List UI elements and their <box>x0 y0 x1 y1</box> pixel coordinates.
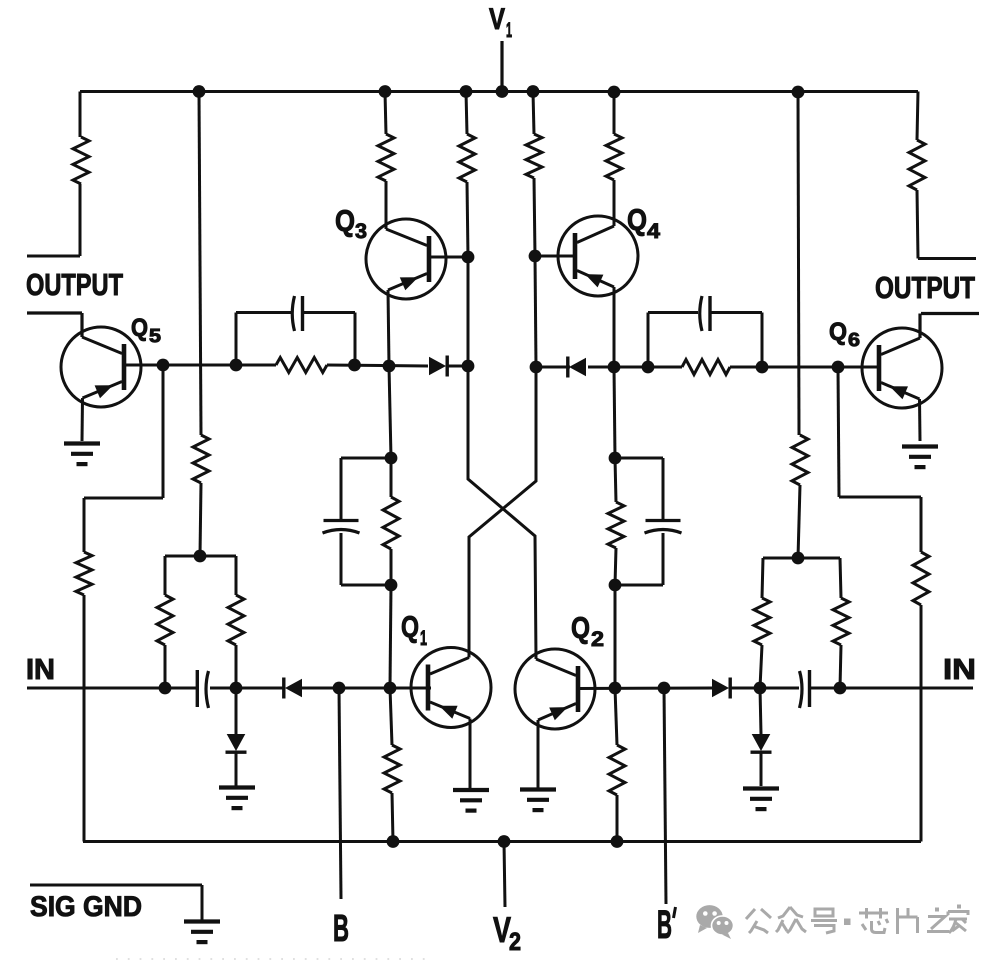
wire Q4 base lead <box>535 255 575 258</box>
node Q3 label <box>335 205 367 243</box>
diode D2 <box>568 357 586 378</box>
wire D6 branch <box>760 688 761 734</box>
svg-text:IN: IN <box>26 654 55 686</box>
resistor R11 <box>606 134 622 180</box>
watermark glyph xin <box>859 908 888 933</box>
node junction bias bar left <box>194 550 207 563</box>
ground D6 <box>743 789 779 810</box>
node junction Q5 base <box>157 359 170 372</box>
wire R12 upper stub <box>615 458 616 502</box>
watermark glyph zhong <box>776 907 806 933</box>
capacitor C1 <box>292 296 302 331</box>
resistor R14 <box>792 435 808 485</box>
svg-text:Q: Q <box>571 612 590 645</box>
ground D5 <box>219 788 255 809</box>
node junction Q3 emitter row <box>383 360 396 373</box>
resistor R1 <box>73 137 89 184</box>
wire right divider B lower <box>840 645 841 688</box>
wire C6 segment <box>811 687 973 690</box>
node junction RC right end <box>348 359 361 372</box>
svg-text:IN: IN <box>943 654 976 686</box>
wire Q5 base lead <box>124 364 163 367</box>
node Q1 label <box>401 611 427 650</box>
wire output stub upper left <box>27 255 80 258</box>
node V1 label <box>489 3 512 42</box>
transistor Q5 <box>61 327 141 407</box>
diode D3 <box>284 678 302 699</box>
resistor R9 <box>384 745 400 793</box>
svg-text:Q: Q <box>829 318 847 346</box>
wire B' lead <box>664 688 666 904</box>
wire D5 to ground <box>235 753 238 786</box>
wire Q5 base row <box>163 364 276 367</box>
resistor R7 <box>459 134 475 182</box>
wire R9 to bottom rail <box>392 793 393 842</box>
svg-text:5: 5 <box>149 326 161 347</box>
wire C4 bracket right lower <box>662 533 665 585</box>
resistor R3 <box>157 595 173 645</box>
wire Q5 emitter lead <box>81 398 85 441</box>
node junction top rail x199 <box>193 85 206 98</box>
svg-text:OUTPUT: OUTPUT <box>875 271 975 305</box>
wire Q3 collector lower <box>385 181 388 229</box>
wire R12 lower stub <box>615 548 616 585</box>
watermark glyph jia <box>948 905 968 934</box>
wire D4 segment <box>730 687 799 690</box>
wire bias line left upper <box>199 92 201 436</box>
wire Q3 emitter down <box>389 366 391 458</box>
svg-text:4: 4 <box>647 220 660 243</box>
wire Q6 base node down <box>838 367 839 497</box>
wire cap C1 bracket <box>236 313 355 366</box>
wire bottom rail <box>83 840 921 843</box>
transistor Q2 <box>515 649 595 729</box>
wire left divider B upper <box>235 556 238 595</box>
wire Q4 collector upper <box>613 92 616 135</box>
node junction IN x840 <box>834 682 847 695</box>
transistor Q1 <box>411 648 491 728</box>
wire line A cross <box>468 366 536 659</box>
node junction IN x236 <box>230 682 243 695</box>
wire output stub upper right <box>918 257 976 260</box>
node IN label right <box>943 654 976 686</box>
ground Q1 emitter <box>453 790 489 811</box>
capacitor C5 <box>197 670 208 708</box>
resistor R17 <box>909 140 925 190</box>
diode D6 <box>751 734 772 752</box>
node junction top rail x385 <box>379 85 392 98</box>
wire left lower column upper <box>83 498 86 552</box>
wire V2 lead <box>504 842 505 908</box>
resistor R6 <box>378 134 394 181</box>
transistor Q3 <box>366 219 446 299</box>
node V2 label <box>493 909 521 956</box>
wire IN left segment <box>27 687 197 690</box>
svg-text:Q: Q <box>131 314 148 342</box>
resistor R16 <box>833 598 849 645</box>
capacitor C3 <box>323 521 360 534</box>
svg-text:1: 1 <box>506 19 512 42</box>
node junction top rail x614 <box>608 86 621 99</box>
svg-text:3: 3 <box>355 220 367 243</box>
node SIG GND label <box>30 891 142 923</box>
node junction bottom rail x617 <box>611 835 624 848</box>
svg-text:1: 1 <box>420 627 427 650</box>
wire left divider B lower <box>235 645 238 688</box>
wire R8 upper stub <box>390 458 393 497</box>
node junction RC2 right end <box>756 361 769 374</box>
node junction C3 bottom <box>385 579 398 592</box>
wire C4 bracket top <box>615 457 663 460</box>
wire left divider A lower <box>164 645 167 688</box>
wire bias bar left <box>165 555 236 558</box>
svg-text:Q: Q <box>627 204 647 237</box>
svg-text:Q: Q <box>401 611 419 644</box>
transistor Q6 <box>862 328 942 408</box>
wire V1 lead <box>500 41 503 92</box>
node junction Q4 base / line B <box>529 250 542 263</box>
watermark glyph middot <box>844 919 851 926</box>
wire bias line right lower <box>798 485 800 558</box>
wire C3 bracket bottom <box>341 584 391 587</box>
svg-text:6: 6 <box>848 330 860 351</box>
node junction row-right / line A <box>530 361 543 374</box>
wire C3 bracket left upper <box>340 458 343 520</box>
node junction Q3 base / line A <box>462 251 475 264</box>
node junction top rail x533 <box>527 85 540 98</box>
node B' label <box>657 903 676 947</box>
wire D6 to ground <box>760 753 763 786</box>
wire C4 bracket bottom <box>615 584 663 587</box>
resistor R20 <box>682 360 730 375</box>
capacitor C6 <box>800 670 810 708</box>
wire D3 to Q1 base <box>302 687 431 690</box>
svg-text:B: B <box>333 908 349 950</box>
wire Q2 base to D4 <box>578 687 713 691</box>
ground SIG GND <box>184 922 220 943</box>
node junction IN x760 <box>754 682 767 695</box>
wire Q3 base lead <box>430 256 468 259</box>
wire R13 upper stub <box>615 688 617 745</box>
wire SIG GND bracket <box>30 885 202 921</box>
wire R9 upper stub <box>390 688 392 745</box>
node OUTPUT label right <box>875 271 975 305</box>
resistor R15 <box>754 598 770 645</box>
svg-text:B: B <box>657 903 672 947</box>
wire C5 to D3 <box>210 687 284 690</box>
node junction top rail V1 <box>496 85 509 98</box>
watermark glyph gong <box>746 909 771 933</box>
resistor R8 <box>383 497 399 549</box>
node junction C4 bottom <box>609 579 622 592</box>
wire right lower column to bottom rail <box>920 605 923 842</box>
wire Q5 base node down <box>162 365 165 498</box>
resistor R12 <box>608 502 624 548</box>
resistor R2 <box>193 435 209 483</box>
wire right divider A lower <box>760 645 762 688</box>
svg-text:OUTPUT: OUTPUT <box>26 268 123 302</box>
svg-text:2: 2 <box>509 928 521 956</box>
svg-text:SIG GND: SIG GND <box>30 891 142 923</box>
resistor R19 <box>276 358 327 373</box>
wire line A mid <box>467 182 468 366</box>
wire left outer drop <box>79 92 82 138</box>
wire row to diode D1 <box>327 365 428 366</box>
node junction bottom rail x393 <box>387 835 400 848</box>
diode D4 <box>712 678 730 699</box>
resistor R18 <box>913 552 929 605</box>
ground Q5 emitter <box>64 444 100 465</box>
wire bias line left lower <box>200 483 201 556</box>
wire line B upper <box>533 92 534 135</box>
resistor R5 <box>76 552 92 595</box>
transistor Q4 <box>558 216 638 296</box>
wire R8 lower stub <box>390 549 393 585</box>
wire Q4 emitter down <box>614 367 615 458</box>
wire line B mid <box>534 178 536 367</box>
node junction IN x615 <box>609 682 622 695</box>
wire Q6 emitter lead <box>918 399 922 441</box>
svg-text:2: 2 <box>591 628 604 651</box>
wire line B cross <box>469 367 536 658</box>
wire Q3 emitter lead <box>388 290 389 366</box>
wire bias bar right <box>763 557 840 560</box>
node junction C4 top <box>609 452 622 465</box>
watermark glyph pian <box>898 908 918 934</box>
wire right divider A upper <box>762 558 763 598</box>
node OUTPUT label left <box>26 268 123 302</box>
watermark wechat icon <box>696 905 733 939</box>
node junction bias bar right <box>792 552 805 565</box>
node junction IN x165 <box>159 682 172 695</box>
wire C4 bracket right upper <box>662 458 665 520</box>
node junction B tap <box>333 682 346 695</box>
wire D2 to RC <box>588 366 682 369</box>
node junction top rail x798 <box>792 86 805 99</box>
wire R13 to bottom rail <box>616 795 619 842</box>
wire bias line right upper <box>798 92 799 436</box>
resistor R10 <box>526 134 542 178</box>
wire center-right to IN <box>614 585 617 688</box>
wire left divider A upper <box>164 556 167 595</box>
capacitor C4 <box>645 521 682 534</box>
wire Q3 collector upper <box>385 92 386 135</box>
wire right outer drop <box>917 92 918 141</box>
node Q6 label <box>829 318 860 351</box>
wire link to left lower column <box>84 497 163 500</box>
node junction top rail x466 <box>460 85 473 98</box>
resistor R4 <box>228 595 244 645</box>
ground Q2 emitter <box>520 790 556 811</box>
node junction Q4 emitter row <box>608 361 621 374</box>
node Q2 label <box>571 612 604 651</box>
svg-text:V: V <box>489 3 505 36</box>
node IN label left <box>26 654 55 686</box>
wire center-left to IN <box>390 585 391 688</box>
wire faint scan marks <box>116 958 430 960</box>
resistor R13 <box>609 745 625 795</box>
wire right divider B upper <box>840 558 841 598</box>
wire Q1 emitter lead <box>469 719 472 789</box>
wire row from line A <box>536 366 570 369</box>
wire V+ top rail <box>80 90 918 93</box>
capacitor C2 <box>700 296 710 331</box>
wire left lower column to bottom rail <box>83 595 86 842</box>
wire link to right lower column <box>839 496 921 499</box>
watermark glyph zhi <box>927 908 949 932</box>
node B label <box>333 908 349 950</box>
node junction row-left / line A <box>462 360 475 373</box>
node junction IN x390 <box>384 682 397 695</box>
wire Q5 collector stub <box>27 313 82 337</box>
wire R1 to output stub <box>79 184 82 256</box>
node junction B' tap <box>658 682 671 695</box>
node junction RC left end <box>230 359 243 372</box>
node junction Q6 base node <box>832 361 845 374</box>
ground Q6 emitter <box>902 447 938 468</box>
wire Q4 collector lower <box>613 180 616 226</box>
svg-text:Q: Q <box>335 205 355 238</box>
wire Q6 collector stub <box>920 314 979 339</box>
wire D1 to crosscouple A <box>447 365 468 368</box>
node Q4 label <box>627 204 660 243</box>
node junction C3 top <box>385 452 398 465</box>
diode D5 <box>226 734 247 752</box>
wire R17 to output stub <box>917 190 918 259</box>
node junction RC2 left end <box>642 361 655 374</box>
watermark glyph hao <box>811 909 837 933</box>
diode D1 <box>429 356 447 377</box>
wire right lower column upper <box>920 497 923 552</box>
wire B lead <box>339 688 341 899</box>
wire Q2 emitter lead <box>537 720 540 788</box>
wire Q4 emitter lead <box>613 287 616 367</box>
wire cap C2 bracket <box>648 313 762 368</box>
wire C3 bracket top <box>341 457 391 460</box>
wire C3 bracket left lower <box>340 533 343 585</box>
wire RC2 to Q6 base <box>730 366 881 369</box>
wire D5 branch <box>235 688 238 734</box>
node junction bottom rail V2 <box>498 835 511 848</box>
node Q5 label <box>131 314 161 347</box>
wire line A upper <box>466 92 467 135</box>
